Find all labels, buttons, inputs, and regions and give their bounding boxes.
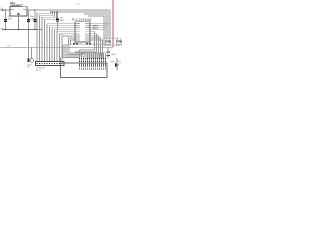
- wire top bus right corner 1: [109, 10, 111, 39]
- wire IC2 right pin6 routing down: [75, 34, 97, 52]
- capacitor C3 lead: [34, 10, 36, 30]
- wire corner to display col3: [67, 45, 84, 55]
- wire net below IC2: [63, 44, 103, 46]
- wire switches bottom: [104, 45, 120, 47]
- LED LED2 triangle: [115, 63, 119, 67]
- wire corner to display col4: [69, 45, 86, 53]
- switch S1 top pins: [107, 38, 109, 40]
- voltage regulator IC1 pin OUT label: [23, 9, 26, 10]
- microcontroller IC2 right pin stubs: [90, 24, 93, 40]
- node junction C3/+5V: [34, 9, 35, 10]
- ground rail end tick: [1, 28, 3, 29]
- svg-text:S2: S2: [116, 37, 118, 39]
- microcontroller IC2 left pin name texts: [76, 23, 81, 40]
- wire top bus right corner 4: [103, 16, 105, 46]
- display LCD1 pin dot row: [79, 66, 106, 67]
- wire bus Z drop 4: [45, 12, 57, 62]
- display LCD1 body: [61, 63, 108, 78]
- capacitor C7 plates: [76, 42, 78, 45]
- svg-text:22p: 22p: [92, 42, 95, 44]
- wire IC2 right pin8 routing down: [84, 38, 101, 56]
- capacitor C3 plates: [34, 19, 37, 20]
- capacitor C9 plates: [89, 42, 91, 45]
- capacitor C2 lead: [28, 10, 30, 30]
- voltage regulator IC1 ground pin lead: [18, 14, 20, 30]
- connector SV1 body: [36, 62, 65, 66]
- capacitor C2 plates: [27, 19, 30, 20]
- microcontroller IC2 right pin name texts: [85, 23, 90, 40]
- power indicator LED3 body right: [31, 59, 33, 63]
- crystal Q1 mark: [93, 25, 97, 29]
- capacitor C5 plates: [56, 19, 59, 20]
- microcontroller IC2 left pin stubs: [73, 24, 76, 40]
- node junction C1/VIN: [5, 9, 6, 10]
- svg-text:LED1: LED1: [111, 54, 117, 56]
- crystal Q1 body: [93, 25, 97, 29]
- display LCD1 mid dot row A: [79, 61, 106, 62]
- power indicator LED3 lead GND: [28, 30, 30, 59]
- display LCD1 bus row wire: [75, 52, 106, 54]
- connector SV1 pins: [36, 63, 63, 65]
- wire display box top-left feed: [60, 58, 62, 64]
- ground rail GND: [2, 29, 42, 31]
- wire branch to IC2 pin 16: [93, 27, 107, 29]
- LED LED2 arrow ticks: [118, 61, 121, 64]
- microcontroller IC2 body: [75, 22, 90, 42]
- wire branch to IC2 pin 17: [93, 25, 109, 27]
- red +V rail vertical right: [112, 0, 114, 47]
- node junction GND/C3: [34, 29, 36, 31]
- wire IC2 right pin9 routing down: [86, 40, 103, 58]
- wire IC2 right pin5 routing down: [80, 32, 95, 50]
- wire bus Z drop 3: [42, 12, 55, 62]
- wire IC2 left pin1 to connector: [47, 24, 73, 62]
- node junction C5/+5V: [57, 11, 58, 12]
- wire S2 bottom stub: [118, 45, 120, 46]
- wire corner to display col1: [63, 45, 80, 58]
- switch S1 pin dots: [106, 41, 107, 42]
- wire IC2 left pin5 to connector: [57, 32, 73, 62]
- wire to +5V corner: [112, 46, 114, 47]
- switch S2 top pins: [118, 38, 120, 40]
- svg-text:22p: 22p: [79, 42, 82, 44]
- voltage regulator IC1 ground pin mark: [18, 13, 20, 15]
- wire VIN input: [0, 9, 10, 11]
- wire IC2 left pin6 to connector: [60, 34, 73, 62]
- wire IC2 right pin7 routing down: [82, 36, 99, 54]
- display LCD1 mid dot row B: [79, 64, 106, 65]
- svg-text:red: red: [27, 67, 30, 69]
- wire branch to IC2 pin 18: [93, 23, 111, 25]
- wire corner to display col2: [65, 45, 82, 56]
- voltage regulator IC1 pin IN label: [11, 9, 14, 10]
- LED LED1 body dots: [107, 52, 108, 53]
- wire branch to IC2 pin 15: [93, 29, 105, 31]
- wire switches feed: [110, 37, 118, 39]
- wire IC2 left pin2 to connector: [50, 26, 73, 62]
- wire IC2 left pin8 down: [69, 38, 73, 45]
- wire top bus right corner 3: [105, 14, 107, 39]
- capacitor C5 lead bottom: [56, 22, 59, 32]
- node junction bus drop4: [56, 11, 57, 12]
- node junction bus drop1: [50, 11, 51, 12]
- wire top bus right corner 2: [107, 12, 109, 39]
- node junction GND/C2: [28, 29, 30, 31]
- wire S1 bottom stub: [107, 45, 109, 46]
- wire IC2 left pin3 to connector: [52, 28, 73, 62]
- capacitor C1 lead: [5, 10, 7, 30]
- wire IC2 left pin7 to connector: [62, 36, 73, 62]
- switch S1 body: [106, 40, 110, 44]
- voltage regulator IC1 body: [10, 7, 27, 16]
- switch S2 body: [117, 40, 121, 44]
- LED LED2 cathode lead: [116, 58, 118, 70]
- capacitor C1 plates: [4, 19, 7, 20]
- node junction GND/C1: [5, 29, 7, 31]
- red +V rail horizontal: [0, 46, 113, 48]
- wire top bus line y16: [88, 15, 104, 17]
- svg-text:S1: S1: [105, 37, 107, 39]
- power indicator LED3 lead +5V: [31, 47, 33, 58]
- wire bus Z drop 1: [37, 12, 51, 62]
- display LCD1 pin label text row: [79, 68, 106, 70]
- LED LED1 lead: [107, 47, 109, 58]
- wire +5V output rail top: [27, 9, 110, 11]
- node junction bus drop2: [52, 11, 53, 12]
- capacitor C5 lead top: [57, 12, 59, 19]
- node junction GND/IC1: [18, 29, 20, 31]
- node VIN terminal: [2, 9, 4, 11]
- capacitor C8 plates: [86, 42, 88, 45]
- wire IC2 left pin4 to connector: [55, 30, 73, 62]
- wire bus line y12: [51, 11, 109, 13]
- node junction GND/bundle: [41, 29, 43, 31]
- power indicator LED3 body left: [27, 59, 29, 63]
- switch S2 pin dots: [117, 41, 118, 42]
- wire IC2 left pin9 down: [71, 40, 73, 45]
- node junction bus drop3: [54, 11, 55, 12]
- capacitor C6 plates: [73, 42, 75, 45]
- display LCD1 pin wires from bus: [80, 50, 106, 66]
- wire bus Z drop 2: [40, 12, 53, 62]
- wire top bus line y14: [84, 13, 106, 15]
- display LCD1 junction dot row: [79, 58, 106, 59]
